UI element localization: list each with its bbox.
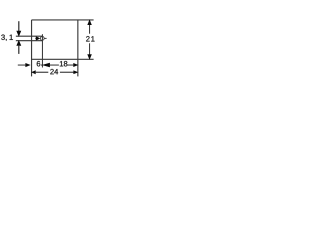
leader arrowhead pointing at hole — [36, 37, 40, 41]
dimension 6 line stub — [41, 64, 42, 66]
dimension 21 down arrowhead — [88, 55, 92, 59]
dimension 3,1 down arrowhead — [17, 31, 21, 36]
dimension 18 left arrowhead — [43, 63, 50, 67]
label 21 — [86, 36, 94, 41]
hole horizontal centerline right stub — [44, 37, 46, 39]
body outline right edge with lower extension line — [77, 20, 79, 77]
dimension 3,1 lower stem — [18, 45, 20, 54]
label 3,1 — [1, 35, 13, 41]
dimension 3,1 upper stem — [18, 21, 20, 31]
dimension 18 right arrowhead — [74, 64, 78, 67]
extension line hole bottom tangent — [16, 40, 42, 42]
dimension 6 outside tail line — [18, 64, 26, 66]
dimension 24 right arrowhead — [74, 71, 78, 74]
hole vertical centerline — [41, 34, 43, 67]
dimension 24 left arrowhead — [32, 71, 36, 74]
dimension 3,1 up arrowhead — [17, 41, 21, 46]
dimension 6 right-pointing arrowhead — [26, 63, 30, 66]
body outline bottom edge with right extension line — [32, 58, 94, 60]
label 18 — [60, 61, 68, 66]
body outline left edge with lower extension line — [31, 20, 33, 77]
dimension 24 line right segment — [60, 71, 74, 73]
dimension 18 line left segment — [50, 64, 59, 66]
label 6 — [37, 61, 41, 66]
hole circle — [40, 37, 44, 41]
hole horizontal centerline — [35, 37, 37, 39]
extension line hole top tangent — [16, 35, 42, 37]
dimension 24 line left segment — [35, 71, 48, 73]
dimension 18 line right segment — [67, 64, 73, 66]
dimension 21 line upper segment — [89, 20, 91, 33]
label 24 — [50, 69, 58, 74]
body outline top edge with right extension line — [32, 19, 94, 21]
dimension 21 up arrowhead — [88, 20, 92, 25]
dimension 21 line lower segment — [89, 43, 91, 59]
